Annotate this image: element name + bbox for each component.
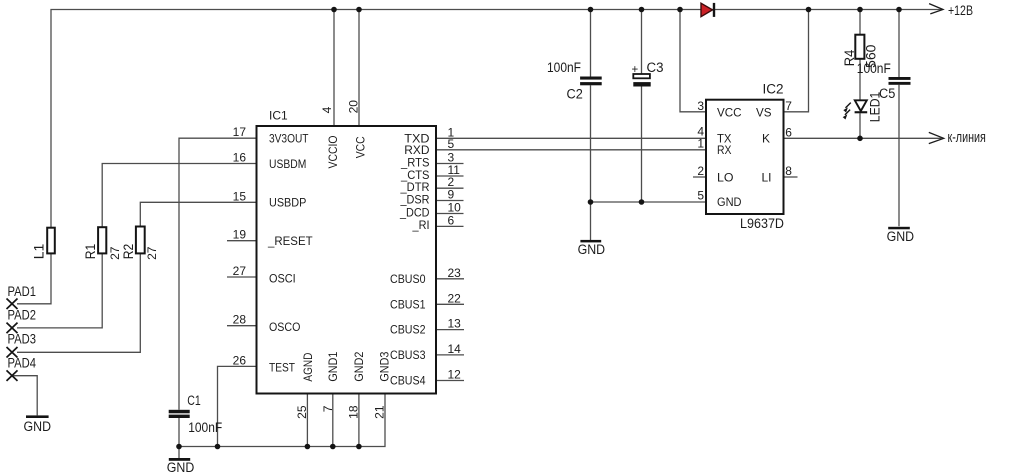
wire IC2 LO stub (693, 176, 706, 178)
svg-text:1: 1 (697, 136, 704, 150)
svg-text:9: 9 (448, 188, 455, 202)
svg-text:R2: R2 (120, 244, 136, 260)
wire C2 top drop (590, 10, 592, 77)
wire GND1 pin7 drop (332, 394, 334, 447)
svg-text:8: 8 (785, 164, 792, 178)
svg-text:19: 19 (233, 228, 247, 242)
svg-text:GND: GND (167, 460, 195, 475)
svg-text:CBUS0: CBUS0 (390, 272, 426, 286)
svg-text:GND: GND (578, 242, 606, 257)
svg-text:LI: LI (761, 170, 771, 184)
svg-text:CBUS1: CBUS1 (390, 297, 426, 311)
LED LED1 symbol (855, 100, 867, 111)
wire CBUS3 stub (436, 354, 464, 356)
svg-text:5: 5 (448, 137, 455, 151)
svg-text:OSCI: OSCI (269, 271, 296, 285)
node PAD3 X mark (7, 347, 18, 358)
wire GND2 pin18 drop (358, 394, 360, 447)
resistor R1 body (98, 227, 106, 253)
diode D1 red on +12V rail (701, 3, 713, 17)
svg-text:20: 20 (347, 100, 361, 114)
wire bottom gnd rail (179, 394, 385, 447)
op-amp IC1 FT232 body (257, 126, 437, 394)
wire CBUS4 stub (436, 380, 464, 382)
wire LED1 to K line (859, 113, 861, 138)
ground symbol under C5 (888, 227, 910, 230)
svg-text:3V3OUT: 3V3OUT (269, 132, 309, 146)
wire +12V top rail (51, 10, 942, 228)
svg-text:23: 23 (448, 266, 462, 280)
node PAD1 X mark (7, 299, 18, 310)
svg-text:560: 560 (863, 44, 879, 68)
ground symbol under C1 (169, 458, 190, 461)
capacitor C1 plates (169, 410, 190, 414)
svg-text:5: 5 (697, 189, 704, 203)
svg-text:GND: GND (717, 195, 742, 209)
svg-text:GND3: GND3 (378, 351, 392, 381)
svg-text:L9637D: L9637D (740, 216, 784, 231)
svg-text:GND: GND (887, 229, 915, 244)
svg-text:RX: RX (717, 143, 732, 157)
svg-text:LED1: LED1 (867, 92, 883, 123)
svg-text:CBUS4: CBUS4 (390, 373, 426, 387)
svg-text:OSCO: OSCO (269, 320, 300, 334)
wire USBDM to R1 (102, 164, 256, 228)
svg-text:VCC: VCC (353, 136, 367, 158)
svg-text:100nF: 100nF (547, 60, 581, 75)
svg-text:C3: C3 (647, 60, 664, 75)
svg-text:17: 17 (233, 125, 247, 139)
svg-text:22: 22 (448, 291, 462, 305)
inductor L1 body (47, 228, 55, 254)
wire C3 top drop (641, 10, 643, 75)
svg-text:_RI: _RI (412, 218, 430, 232)
wire AGND pin25 drop (306, 394, 308, 447)
wire IC2 LI stub (784, 176, 798, 178)
wire R4 to LED1 (859, 59, 861, 101)
wire USBDP to R2 (140, 202, 256, 226)
svg-text:13: 13 (448, 317, 462, 331)
capacitor C2 plates (580, 77, 602, 80)
wire PAD4 to GND (12, 376, 37, 416)
svg-text:_DCD: _DCD (399, 205, 430, 219)
node PAD2 X mark (7, 323, 18, 334)
svg-text:14: 14 (448, 342, 462, 356)
resistor R2 body (136, 227, 145, 254)
wire C1 bottom (178, 418, 180, 447)
wire _DCD stub (436, 213, 464, 215)
svg-text:_RESET: _RESET (267, 234, 313, 248)
svg-text:2: 2 (697, 164, 704, 178)
resistor R4 body (855, 35, 864, 59)
svg-text:VCC: VCC (717, 105, 742, 119)
node junction dots top rail (331, 7, 902, 13)
svg-text:100nF: 100nF (188, 420, 222, 435)
node junction dots gnd net C2 C3 (588, 199, 594, 205)
wire IC2 GND pin5 to C2/C3 gnd (591, 201, 707, 203)
svg-text:4: 4 (320, 106, 334, 113)
svg-text:+12В: +12В (948, 2, 973, 18)
wire IC2 VS pin7 (784, 10, 809, 112)
svg-text:27: 27 (145, 246, 159, 260)
svg-text:VS: VS (756, 105, 772, 119)
svg-text:18: 18 (347, 405, 361, 419)
svg-text:K: K (762, 132, 770, 146)
svg-text:7: 7 (321, 405, 335, 412)
wire TXD IC1 to IC2 TX (436, 137, 706, 139)
node junction dots bottom gnd rail (176, 444, 182, 450)
svg-text:L1: L1 (31, 243, 47, 259)
svg-text:26: 26 (233, 353, 247, 367)
wire _RESET stub (227, 240, 257, 242)
svg-text:PAD2: PAD2 (8, 307, 37, 323)
wire C1 gnd symbol drop (178, 447, 180, 459)
node K-line arrow (929, 132, 944, 143)
wire L1 to PAD1 (17, 253, 51, 303)
wire _DTR stub (436, 187, 464, 189)
svg-text:VCCIO: VCCIO (326, 136, 340, 169)
svg-text:21: 21 (373, 405, 387, 419)
node +12V arrow (929, 4, 943, 14)
wire C2 bottom to gnd net (590, 85, 592, 240)
svg-text:6: 6 (448, 213, 455, 227)
svg-text:USBDM: USBDM (269, 157, 306, 171)
svg-text:к-линия: к-линия (948, 129, 986, 146)
wire K-line TX out (784, 137, 942, 139)
wire CBUS2 stub (436, 329, 464, 331)
wire C5 bottom to GND (898, 85, 900, 227)
svg-text:LO: LO (717, 170, 734, 184)
wire CBUS0 stub (436, 278, 464, 280)
ground symbol under PAD4 (26, 415, 49, 418)
svg-text:R4: R4 (841, 50, 857, 67)
svg-text:+: + (632, 64, 639, 76)
svg-text:R1: R1 (82, 244, 98, 260)
svg-text:CBUS3: CBUS3 (390, 348, 426, 362)
svg-text:IC1: IC1 (269, 108, 288, 122)
wire _RI stub (436, 225, 464, 227)
svg-text:10: 10 (448, 201, 462, 215)
node junction dot LED K line (857, 136, 863, 142)
svg-text:15: 15 (233, 189, 247, 203)
wire OSCI stub (227, 276, 257, 278)
svg-text:CBUS2: CBUS2 (390, 323, 426, 337)
svg-text:6: 6 (785, 125, 792, 139)
svg-text:TEST: TEST (269, 361, 296, 375)
svg-text:PAD3: PAD3 (8, 330, 37, 346)
ground symbol under C2 (580, 240, 601, 243)
svg-text:3: 3 (697, 99, 704, 113)
wire RXD IC1 to IC2 RX (436, 149, 706, 151)
wire C5 top drop (898, 10, 900, 78)
LED LED1 emission arrows (845, 103, 851, 115)
wire _CTS stub (436, 175, 464, 177)
svg-text:28: 28 (233, 313, 247, 327)
svg-text:16: 16 (233, 151, 247, 165)
capacitor C5 plates (889, 77, 911, 80)
svg-text:GND1: GND1 (326, 351, 340, 381)
wire CBUS1 stub (436, 303, 464, 305)
svg-text:PAD1: PAD1 (8, 283, 37, 299)
wire 3V3OUT to C1 (179, 138, 257, 410)
svg-text:25: 25 (295, 405, 309, 419)
wire _RTS stub (436, 163, 464, 165)
svg-text:USBDP: USBDP (269, 196, 306, 210)
wire R1 to PAD2 (17, 253, 102, 328)
wire IC2 VCC pin3 (680, 10, 706, 112)
wire R4 top (859, 10, 861, 35)
wire _DSR stub (436, 200, 464, 202)
svg-text:GND2: GND2 (352, 351, 366, 381)
svg-text:GND: GND (24, 419, 52, 434)
op-amp IC2 L9637D body (706, 100, 784, 214)
wire C3 bottom drop (641, 87, 643, 203)
capacitor C3 electrolytic plates (633, 74, 650, 78)
svg-text:C2: C2 (567, 86, 583, 101)
svg-text:AGND: AGND (301, 352, 315, 381)
wire VCC pin20 drop (358, 10, 360, 127)
svg-text:IC2: IC2 (762, 82, 783, 97)
svg-text:27: 27 (233, 264, 247, 278)
wire R2 to PAD3 (17, 253, 140, 352)
wire OSCO stub (227, 325, 257, 327)
wire VCCIO pin4 drop (333, 10, 335, 127)
svg-text:PAD4: PAD4 (8, 355, 37, 371)
svg-text:12: 12 (448, 368, 462, 382)
svg-text:7: 7 (785, 99, 792, 113)
node PAD4 X mark (7, 370, 18, 381)
svg-text:C1: C1 (187, 393, 201, 408)
wire TEST drop (218, 366, 257, 446)
